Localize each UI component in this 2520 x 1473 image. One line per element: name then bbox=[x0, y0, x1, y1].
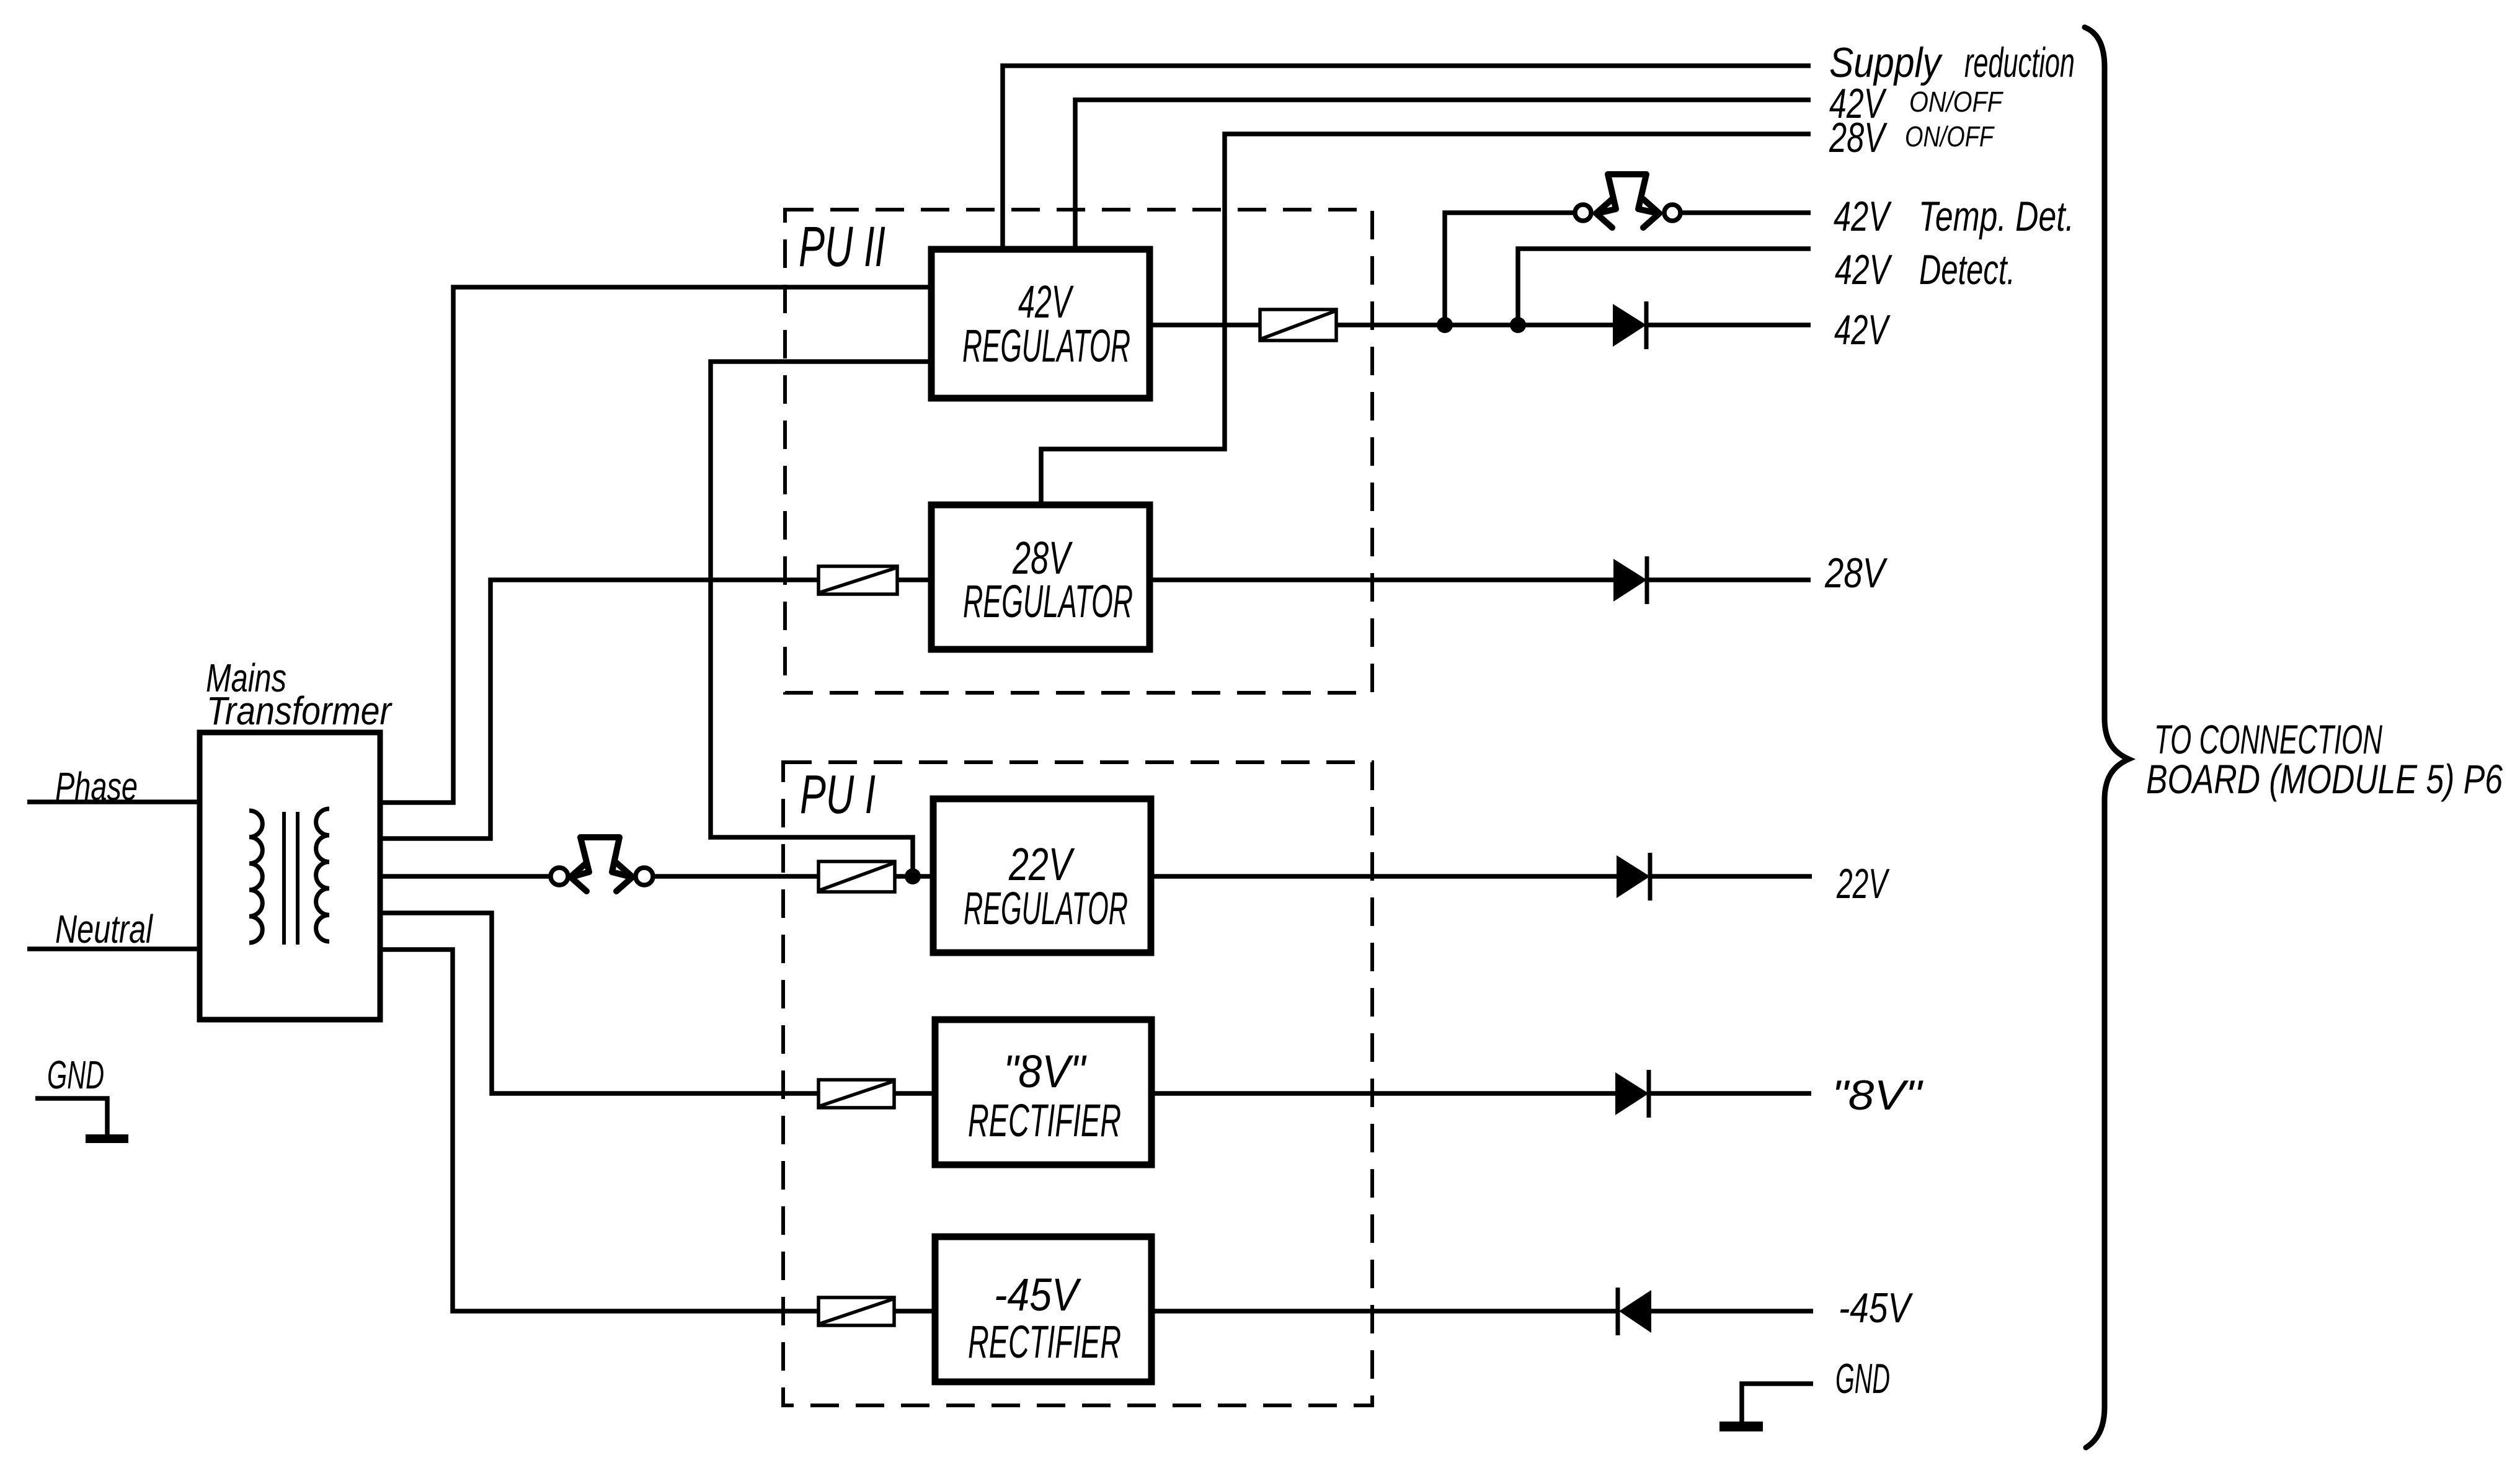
fuse F5 (-45V) bbox=[819, 1297, 894, 1325]
wire 42V fuse to diode bbox=[1336, 323, 1613, 327]
fuse F4 (8V) bbox=[819, 1080, 894, 1108]
svg-text:42V: 42V bbox=[1834, 193, 1892, 240]
svg-text:42V: 42V bbox=[1835, 246, 1892, 293]
diode D5 (-45V, reversed) bbox=[1618, 1288, 1651, 1335]
wire Neutral input bbox=[27, 946, 197, 951]
diode D3 (22V) bbox=[1617, 853, 1650, 901]
wire 22V diode to connector bbox=[1650, 874, 1812, 879]
svg-text:REGULATOR: REGULATOR bbox=[963, 576, 1133, 627]
wire -45V fuse to -45V rectifier bbox=[894, 1309, 935, 1314]
svg-text:PU I: PU I bbox=[800, 763, 876, 825]
svg-text:"8V": "8V" bbox=[1003, 1046, 1087, 1097]
transformer T1 (Mains Transformer) box bbox=[200, 732, 380, 1020]
thermal switch S1 (mains) bbox=[551, 837, 653, 891]
wire transformer winding 5 to -45V fuse bbox=[379, 950, 819, 1311]
wire transformer winding 2 to 28V fuse bbox=[379, 580, 819, 839]
wire 28V regulator output to diode bbox=[1151, 577, 1613, 582]
wire 8V fuse to 8V rectifier bbox=[894, 1091, 935, 1096]
block "8V" RECTIFIER bbox=[935, 1020, 1151, 1165]
block 28V REGULATOR bbox=[931, 505, 1150, 649]
block 22V REGULATOR bbox=[933, 799, 1151, 953]
transformer T1 core bbox=[284, 812, 298, 945]
wire mains switch to 22V fuse bbox=[653, 874, 819, 879]
svg-text:REGULATOR: REGULATOR bbox=[962, 320, 1130, 372]
wire 28V diode to connector bbox=[1647, 577, 1811, 582]
diode D2 (28V) bbox=[1613, 556, 1647, 604]
wire 28V fuse to 28V regulator bbox=[897, 577, 930, 582]
svg-text:Detect.: Detect. bbox=[1919, 246, 2015, 293]
svg-text:Phase: Phase bbox=[55, 764, 138, 809]
fuse F3 (22V) bbox=[819, 861, 895, 892]
transformer T1 secondary coil bbox=[316, 809, 329, 941]
node junction dot B (42V detect) bbox=[1510, 317, 1526, 333]
wire 42V regulator lower input to 22V junction bbox=[711, 362, 929, 876]
wire Phase input bbox=[27, 799, 197, 804]
wire 22V fuse to 22V regulator bbox=[895, 874, 935, 879]
thermal switch S2 (42V temp) bbox=[1575, 174, 1680, 228]
dashed box PU I bbox=[783, 762, 1372, 1405]
svg-text:RECTIFIER: RECTIFIER bbox=[968, 1316, 1121, 1368]
svg-text:42V: 42V bbox=[1834, 306, 1891, 354]
wire 42V Temp. Det. branch left bbox=[1445, 213, 1574, 325]
svg-text:PU II: PU II bbox=[799, 215, 885, 278]
wire 42V regulator output to fuse bbox=[1151, 323, 1260, 327]
diode D4 (8V) bbox=[1615, 1070, 1649, 1118]
wire 42V diode to connector bbox=[1646, 323, 1811, 327]
wire transformer winding 3 to mains switch bbox=[379, 874, 551, 879]
wire -45V diode to connector bbox=[1651, 1309, 1813, 1314]
svg-text:-45V: -45V bbox=[1839, 1284, 1914, 1332]
svg-text:-45V: -45V bbox=[994, 1269, 1082, 1320]
svg-text:ON/OFF: ON/OFF bbox=[1905, 120, 1995, 153]
diode D1 (42V) bbox=[1613, 301, 1646, 349]
wire 8V rectifier output to diode bbox=[1151, 1091, 1617, 1096]
svg-text:reduction: reduction bbox=[1964, 39, 2075, 86]
wire 8V diode to connector bbox=[1649, 1091, 1811, 1096]
wire 42V ON/OFF line bbox=[1075, 100, 1811, 248]
block -45V RECTIFIER bbox=[935, 1237, 1151, 1382]
svg-text:TO CONNECTION: TO CONNECTION bbox=[2154, 716, 2382, 762]
node junction dot A (42V temp det) bbox=[1437, 317, 1453, 333]
svg-text:Transformer: Transformer bbox=[206, 688, 393, 733]
svg-text:GND: GND bbox=[47, 1052, 104, 1097]
ground GND right bbox=[1719, 1384, 1813, 1431]
brace to connection board bbox=[2085, 27, 2129, 1448]
svg-text:"8V": "8V" bbox=[1832, 1072, 1923, 1119]
fuse F2 (28V) bbox=[819, 566, 897, 594]
svg-text:Neutral: Neutral bbox=[55, 907, 153, 951]
wire transformer winding 1 to 42V regulator upper input bbox=[379, 287, 929, 803]
transformer T1 primary coil bbox=[249, 811, 262, 943]
svg-text:RECTIFIER: RECTIFIER bbox=[968, 1095, 1121, 1146]
node junction dot C (22V input) bbox=[905, 868, 921, 884]
svg-text:Supply: Supply bbox=[1829, 39, 1943, 86]
wire -45V rectifier output to diode bbox=[1151, 1309, 1617, 1314]
dashed box PU II bbox=[785, 210, 1372, 693]
wire 28V ON/OFF line bbox=[1041, 134, 1811, 504]
wire transformer winding 4 to 8V fuse bbox=[379, 913, 819, 1093]
svg-text:ON/OFF: ON/OFF bbox=[1909, 86, 2003, 118]
wire Supply reduction line bbox=[1003, 66, 1811, 248]
wire 42V Detect. line bbox=[1518, 249, 1811, 325]
ground GND left bbox=[35, 1098, 128, 1143]
svg-text:REGULATOR: REGULATOR bbox=[964, 883, 1128, 934]
wire 22V regulator output to diode bbox=[1150, 874, 1617, 879]
svg-text:28V: 28V bbox=[1829, 114, 1888, 161]
svg-text:GND: GND bbox=[1835, 1355, 1890, 1402]
svg-text:28V: 28V bbox=[1824, 550, 1888, 597]
svg-text:Temp. Det.: Temp. Det. bbox=[1919, 193, 2074, 240]
svg-text:22V: 22V bbox=[1836, 860, 1889, 907]
svg-text:BOARD (MODULE 5) P6: BOARD (MODULE 5) P6 bbox=[2146, 756, 2503, 802]
fuse F1 (42V) bbox=[1260, 309, 1336, 340]
wire 42V Temp. Det. line right of switch bbox=[1681, 210, 1811, 215]
block 42V REGULATOR bbox=[931, 249, 1150, 398]
